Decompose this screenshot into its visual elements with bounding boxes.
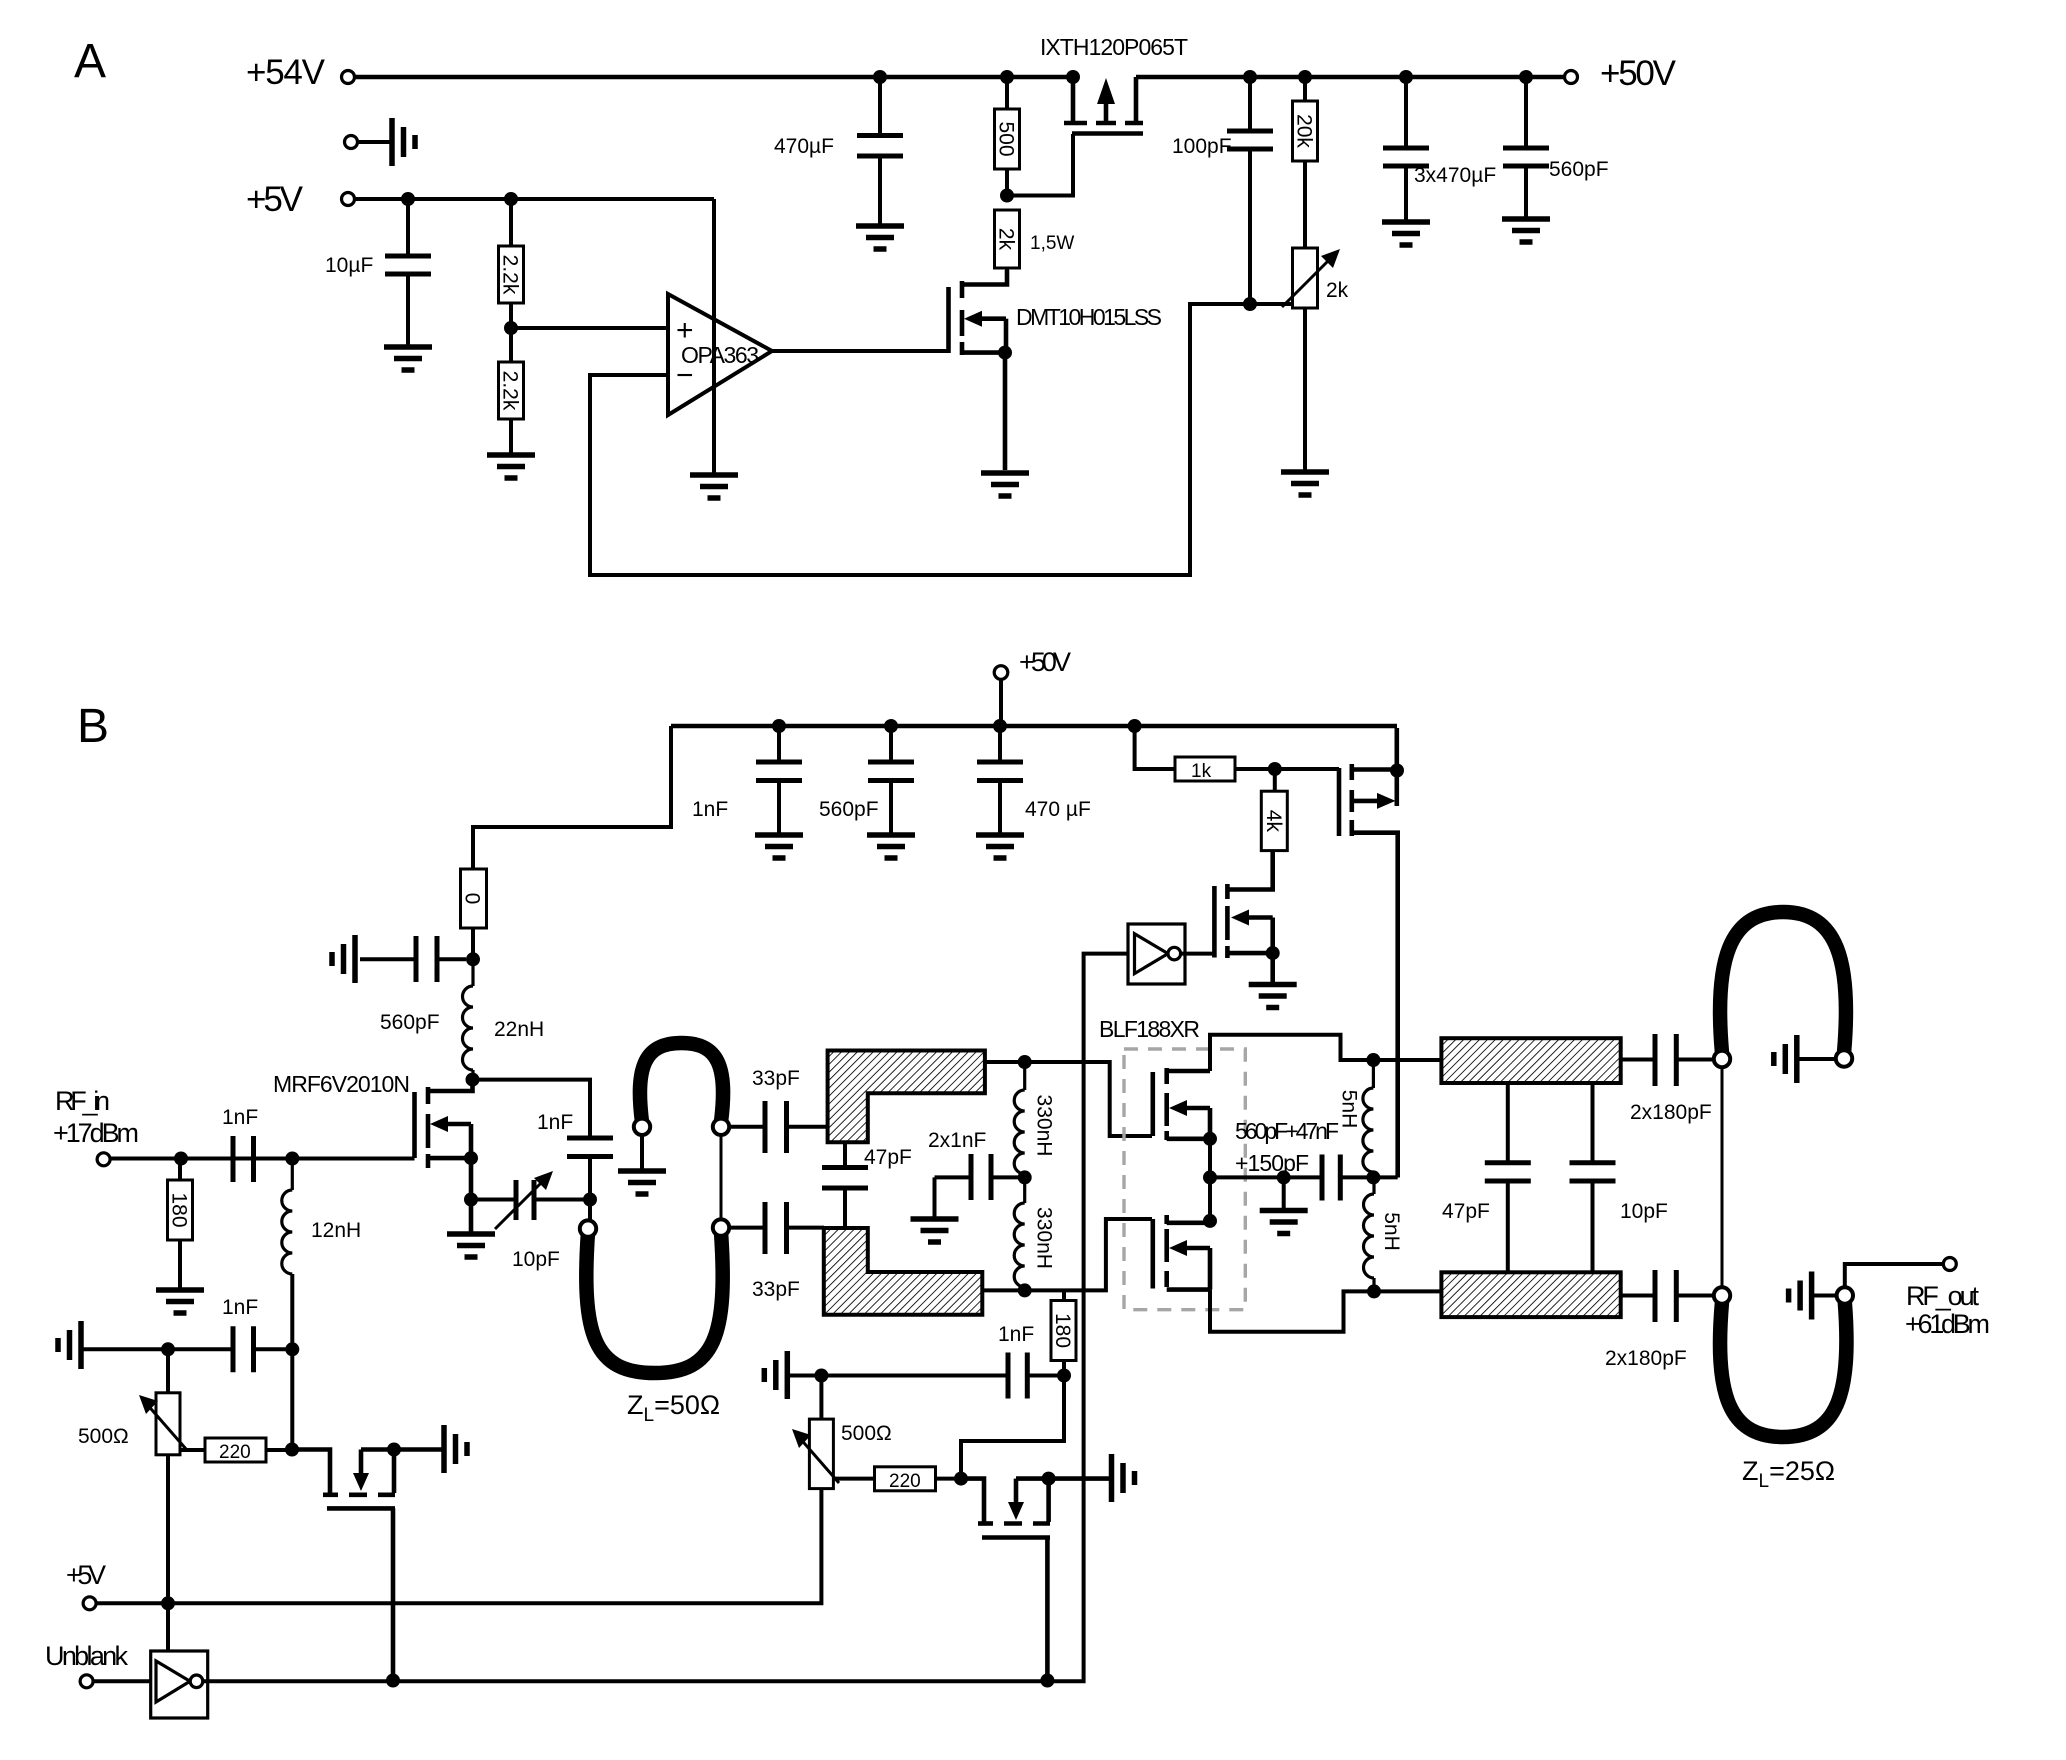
wire QB drain to lower strip [1210, 1290, 1441, 1332]
resistor 1k [1175, 757, 1339, 782]
chassis ground left of bias-2 [764, 1351, 787, 1399]
inductor 5nH lower [1364, 1177, 1375, 1291]
junction Unblank at Q4 gate [386, 1674, 400, 1688]
terminal RF_in [97, 1153, 110, 1166]
svg-text:47pF: 47pF [1442, 1200, 1490, 1223]
wire +50V-B terminal stem [999, 679, 1003, 726]
wire TL25 left ports link [1721, 1067, 1724, 1288]
terminal +50V-B [994, 666, 1008, 680]
svg-text:100pF: 100pF [1172, 135, 1232, 158]
microstrip lower output block [1441, 1272, 1620, 1317]
microstrip upper output block [1441, 1038, 1620, 1083]
svg-text:330nH: 330nH [1033, 1207, 1056, 1269]
capacitor 47pF output [1485, 1083, 1531, 1272]
svg-text:1nF: 1nF [692, 798, 728, 821]
trimmer capacitor 10pF [471, 1171, 590, 1229]
svg-text:560pF: 560pF [1549, 158, 1609, 181]
resistor 2k 1.5W [995, 210, 1020, 285]
resistor 180 bias [1051, 1290, 1076, 1375]
terminal chassis ground input [345, 136, 358, 149]
BLF188XR dashed outline [1124, 1049, 1245, 1310]
wire feedback from op-amp minus input [590, 304, 1250, 575]
wire upper gate feed [985, 1062, 1152, 1136]
svg-text:500Ω: 500Ω [841, 1422, 892, 1445]
junction rail at 20k [1298, 70, 1312, 84]
wire lower gate feed [982, 1219, 1152, 1290]
terminal +5V [342, 193, 355, 206]
wire rail to 1k [1135, 726, 1175, 769]
junction RF line at 12nH [285, 1152, 299, 1166]
svg-text:180: 180 [168, 1192, 191, 1227]
capacitor 10uF [385, 199, 431, 345]
transistor Q1 IXTH120P065T [1064, 77, 1143, 134]
transistor Q5 bias switch 2 [961, 1479, 1112, 1680]
svg-text:A: A [74, 35, 106, 88]
capacitor 560pF input [360, 936, 466, 982]
svg-text:1nF: 1nF [537, 1111, 573, 1134]
svg-text:2k: 2k [1326, 279, 1349, 302]
node interstage mid junction [1018, 1170, 1032, 1184]
ground below 470uF-B [976, 835, 1024, 858]
port TL50 lower-right [713, 1219, 729, 1235]
ground below 2x1nF [911, 1219, 959, 1242]
node Q5 source junction [1042, 1472, 1056, 1486]
node QA source junction [1203, 1132, 1217, 1146]
ground below 2.2k lower [487, 455, 535, 478]
port TL25 upper-right [1836, 1050, 1852, 1066]
ground below DMT source [981, 473, 1029, 496]
node 0/560pF/22nH junction [466, 952, 480, 966]
svg-text:500Ω: 500Ω [78, 1425, 129, 1448]
wire inverter U3 output [1181, 952, 1215, 956]
transistor Q6 gate bias switch [1214, 851, 1272, 982]
svg-text:DMT10H015LSS: DMT10H015LSS [1016, 304, 1162, 330]
wire TL50 ground stem [640, 1135, 644, 1169]
inductor 22nH [463, 959, 474, 1080]
ground below 3x470uF [1382, 222, 1430, 245]
capacitor 1nF input [233, 1136, 254, 1182]
svg-text:+50V: +50V [1600, 54, 1677, 93]
capacitor 470uF [857, 77, 903, 224]
terminal +5V-B [83, 1597, 96, 1610]
junction bias-2 at pot [814, 1369, 828, 1383]
resistor 180 input [168, 1159, 193, 1289]
svg-text:1k: 1k [1191, 761, 1212, 782]
svg-text:RF_in: RF_in [55, 1086, 110, 1116]
svg-text:2x180pF: 2x180pF [1630, 1101, 1712, 1124]
ground below driver source [447, 1234, 495, 1257]
junction 1k/4k/gate [1268, 762, 1282, 776]
transistor Q7 drain switch PMOS [1339, 728, 1398, 1178]
capacitor 470uF-B [977, 726, 1023, 833]
terminal +50V [1565, 71, 1578, 84]
svg-text:Unblank: Unblank [45, 1641, 129, 1671]
junction on +54V rail at IXTH source [1066, 70, 1080, 84]
junction +5V at inverter column [161, 1596, 175, 1610]
node driver drain junction [466, 1073, 480, 1087]
transistor Q2 DMT10H015LSS [949, 270, 1008, 470]
junction 220-1 right [285, 1443, 299, 1457]
inverter U3 [1128, 924, 1185, 984]
wire TL25 lower ground link [1812, 1294, 1837, 1298]
transmission line TL25 upper arc [1720, 912, 1846, 1053]
capacitor 10pF output [1570, 1083, 1616, 1272]
ground below 10uF [384, 347, 432, 370]
svg-text:560pF: 560pF [819, 798, 879, 821]
svg-text:+54V: +54V [246, 53, 326, 92]
junction on +54V rail at 500 resistor [1000, 70, 1014, 84]
ground below op-amp [690, 475, 738, 498]
wire Unblank input [93, 1679, 151, 1683]
capacitor 560pF-B2 [868, 726, 914, 833]
port TL50 upper-right [713, 1119, 729, 1135]
node divider junction [504, 321, 518, 335]
svg-text:12nH: 12nH [311, 1219, 361, 1242]
node QB drain junction [1203, 1214, 1217, 1228]
svg-text:470µF: 470µF [774, 135, 834, 158]
wire Unblank line [203, 954, 1128, 1682]
junction rail at 560pF-B [884, 719, 898, 733]
capacitor 100pF [1227, 77, 1273, 304]
inductor 5nH upper [1363, 1060, 1374, 1177]
resistor 2.2k lower [499, 362, 524, 453]
junction upper drain at 5nH [1366, 1053, 1380, 1067]
port TL25 lower-left [1714, 1287, 1730, 1303]
wire +54V rail [355, 75, 1073, 80]
node BLF mid bypass junction [1203, 1170, 1217, 1184]
chassis ground left of 560pF input [332, 935, 355, 983]
svg-text:+5V: +5V [246, 180, 304, 219]
junction bias at 12nH line [285, 1342, 299, 1356]
resistor 0 ohm [461, 869, 487, 959]
port TL50 upper-left [634, 1119, 650, 1135]
junction lower drain at 5nH [1367, 1284, 1381, 1298]
wire rail left drop to 0 resistor [473, 726, 671, 869]
junction bias-2 at 180 [1057, 1369, 1071, 1383]
wire IXTH gate [1007, 134, 1073, 196]
junction rail at 560pF [1519, 70, 1533, 84]
chassis ground right of Q4 [444, 1425, 467, 1473]
junction RF_in at 180 [174, 1152, 188, 1166]
wire QA drain to upper strip [1210, 1035, 1441, 1071]
wire RF_out [1845, 1264, 1944, 1287]
svg-text:+17dBm: +17dBm [53, 1118, 139, 1148]
resistor 500 [995, 77, 1020, 196]
svg-text:500: 500 [995, 121, 1018, 156]
svg-text:1nF: 1nF [222, 1106, 258, 1129]
port TL25 upper-left [1714, 1051, 1730, 1067]
chassis ground left of 1nF bias [58, 1321, 81, 1369]
svg-text:+61dBm: +61dBm [1905, 1309, 1990, 1339]
capacitor 33pF lower [729, 1202, 824, 1254]
svg-text:22nH: 22nH [494, 1018, 544, 1041]
capacitor 47pF input [822, 1142, 868, 1228]
svg-text:OPA363: OPA363 [681, 342, 759, 368]
svg-text:10µF: 10µF [325, 254, 373, 277]
capacitor 1nF bias-2 [1008, 1353, 1064, 1399]
wire inverter-1 supply stem [166, 1603, 170, 1651]
op-amp U1 OPA363 [668, 294, 772, 415]
junction lower gate feed at 330nH [1018, 1283, 1032, 1297]
svg-text:5nH: 5nH [1380, 1212, 1403, 1251]
ground below TL50 upper-left port [618, 1171, 666, 1194]
wire bypass node to Q7 source [1373, 1175, 1397, 1179]
wire op-amp output to DMT gate [772, 349, 948, 353]
svg-text:33pF: 33pF [752, 1278, 800, 1301]
microstrip upper input block [828, 1051, 985, 1143]
svg-text:+150pF: +150pF [1235, 1150, 1309, 1176]
svg-text:470 µF: 470 µF [1025, 798, 1091, 821]
junction rail at 1k feed [1128, 719, 1142, 733]
svg-text:10pF: 10pF [512, 1248, 560, 1271]
svg-text:1nF: 1nF [998, 1323, 1034, 1346]
inductor 330nH upper [1014, 1062, 1024, 1177]
wire bypass node line [1210, 1175, 1320, 1179]
svg-text:220: 220 [889, 1471, 921, 1492]
terminal RF_out [1943, 1258, 1956, 1271]
junction 220-2 right [954, 1472, 968, 1486]
junction +5V at divider [504, 192, 518, 206]
resistor 4k [1261, 769, 1287, 851]
ground below 560pF-A [1502, 219, 1550, 242]
ground below bypass [1260, 1211, 1308, 1234]
ground below 180 input [156, 1290, 204, 1313]
svg-text:3x470µF: 3x470µF [1414, 164, 1496, 187]
transistor QA BLF upper half [1153, 1068, 1210, 1140]
wire TL50 right ports link [720, 1135, 723, 1220]
junction +5V at 10uF [401, 192, 415, 206]
potentiometer 2k [1250, 248, 1340, 470]
transistor Q4 bias switch 1 [292, 1450, 444, 1681]
svg-text:220: 220 [219, 1442, 251, 1463]
svg-text:2k: 2k [995, 228, 1018, 251]
transistor Q3 MRF6V2010N [415, 1080, 473, 1232]
wire bypass ground stem [1282, 1177, 1286, 1208]
ground below 2k pot [1281, 472, 1329, 495]
junction bypass ground tap [1277, 1170, 1291, 1184]
chassis ground right of Q5 [1112, 1454, 1135, 1502]
junction upper gate feed at 330nH [1018, 1055, 1032, 1069]
wire BLF center column [1208, 1139, 1212, 1221]
svg-text:BLF188XR: BLF188XR [1099, 1016, 1200, 1042]
node choke mid junction [1366, 1170, 1380, 1184]
transmission line TL25 lower U [1720, 1302, 1846, 1437]
chassis ground at TL25 lower [1789, 1272, 1812, 1320]
svg-text:330nH: 330nH [1033, 1095, 1056, 1157]
svg-text:33pF: 33pF [752, 1067, 800, 1090]
capacitor 560pF-A [1503, 77, 1549, 217]
chassis ground symbol (right facing) [392, 118, 415, 166]
node Q6 source junction [1266, 946, 1280, 960]
svg-text:B: B [77, 700, 109, 753]
resistor 220-1 [180, 1438, 292, 1463]
node TL50 input junction [583, 1193, 597, 1207]
capacitor 33pF upper [729, 1101, 828, 1153]
svg-text:1,5W: 1,5W [1030, 233, 1074, 254]
svg-text:10pF: 10pF [1620, 1200, 1668, 1223]
svg-text:MRF6V2010N: MRF6V2010N [273, 1071, 410, 1097]
wire +50V-B top rail [671, 724, 1397, 729]
resistor 220-2 [833, 1467, 961, 1492]
capacitor 1nF driver [567, 1138, 613, 1200]
svg-text:IXTH120P065T: IXTH120P065T [1040, 34, 1188, 60]
wire +50V rail [1136, 75, 1565, 80]
svg-text:2.2k: 2.2k [499, 255, 522, 295]
capacitor 2x1nF [935, 1154, 1025, 1217]
transmission line TL50 upper arc [640, 1043, 723, 1122]
inductor 330nH lower [1014, 1177, 1024, 1290]
terminal +54V [342, 71, 355, 84]
svg-text:2x180pF: 2x180pF [1605, 1347, 1687, 1370]
wire bias-2 node to 220-2 [961, 1376, 1064, 1479]
wire TL25 upper ground link [1797, 1057, 1836, 1061]
node Q4 source junction [387, 1443, 401, 1457]
ground below 1nF-B [755, 835, 803, 858]
node 500/2k junction [1000, 189, 1014, 203]
wire +5V supply into op-amp [712, 199, 716, 473]
inverter U2 [151, 1651, 208, 1718]
junction Unblank at Q5 gate [1040, 1674, 1054, 1688]
svg-text:+5V: +5V [66, 1560, 106, 1590]
wire +5V-B rail [96, 1489, 821, 1604]
ground below 470uF [856, 226, 904, 249]
capacitor 2x180pF lower [1621, 1270, 1714, 1322]
capacitor 3x470uF [1383, 77, 1429, 220]
capacitor 1nF-B [756, 726, 802, 833]
capacitor 1nF bias [233, 1326, 292, 1372]
resistor 2.2k upper [499, 199, 524, 362]
capacitor 560pF+47nF+150pF [1322, 1155, 1373, 1201]
potentiometer 500ohm-2 [792, 1376, 839, 1489]
svg-text:47pF: 47pF [864, 1146, 912, 1169]
svg-text:4k: 4k [1262, 810, 1285, 833]
svg-text:0: 0 [461, 893, 484, 905]
ground below 560pF-B2 [867, 835, 915, 858]
wire drain node to 1nF driver [473, 1080, 591, 1136]
svg-text:5nH: 5nH [1338, 1090, 1361, 1129]
wire 12nH to bias node [290, 1274, 294, 1450]
transistor QB BLF lower half [1153, 1215, 1210, 1290]
terminal Unblank [80, 1675, 93, 1688]
wire RF_in to driver gate [110, 1157, 415, 1161]
node driver source/body junction [464, 1151, 478, 1165]
junction bias at 500 pot [161, 1342, 175, 1356]
svg-text:2x1nF: 2x1nF [928, 1129, 986, 1152]
junction rail at 3x470uF [1399, 70, 1413, 84]
svg-text:180: 180 [1051, 1313, 1074, 1348]
junction rail at 1nF-B [772, 719, 786, 733]
capacitor 2x180pF upper [1621, 1034, 1714, 1086]
port TL25 lower-right [1837, 1287, 1853, 1303]
svg-text:560pF+47nF: 560pF+47nF [1235, 1118, 1339, 1144]
svg-text:RF_out: RF_out [1906, 1281, 1979, 1311]
inductor 12nH [282, 1159, 293, 1281]
node DMT source junction [998, 346, 1012, 360]
junction rail at 100pF [1243, 70, 1257, 84]
svg-text:+50V: +50V [1019, 647, 1071, 677]
wire node to TL50 port [588, 1200, 592, 1225]
svg-text:1nF: 1nF [222, 1296, 258, 1319]
node driver source bias tap [464, 1193, 478, 1207]
chassis ground at TL25 upper [1774, 1035, 1797, 1083]
wire ground terminal [357, 140, 391, 144]
wire bias-2 ground line [787, 1374, 1006, 1378]
svg-text:560pF: 560pF [380, 1011, 440, 1034]
node Q7 drain junction [1390, 764, 1404, 778]
node feedback junction [1243, 297, 1257, 311]
wire +5V rail [354, 197, 714, 201]
ground below Q6 [1249, 985, 1297, 1008]
transmission line TL50 lower U [586, 1232, 722, 1373]
port TL50 lower-left [580, 1220, 596, 1236]
wire bias ground line [81, 1347, 231, 1351]
junction rail at 470uF-B [993, 719, 1007, 733]
junction on +54V rail at 470uF [873, 70, 887, 84]
microstrip lower input block [824, 1228, 983, 1315]
resistor 20k [1293, 77, 1318, 248]
potentiometer 500ohm-1 [139, 1349, 186, 1603]
svg-text:20k: 20k [1293, 114, 1316, 148]
wire divider to op-amp + input [511, 326, 668, 330]
svg-text:2.2k: 2.2k [499, 371, 522, 411]
